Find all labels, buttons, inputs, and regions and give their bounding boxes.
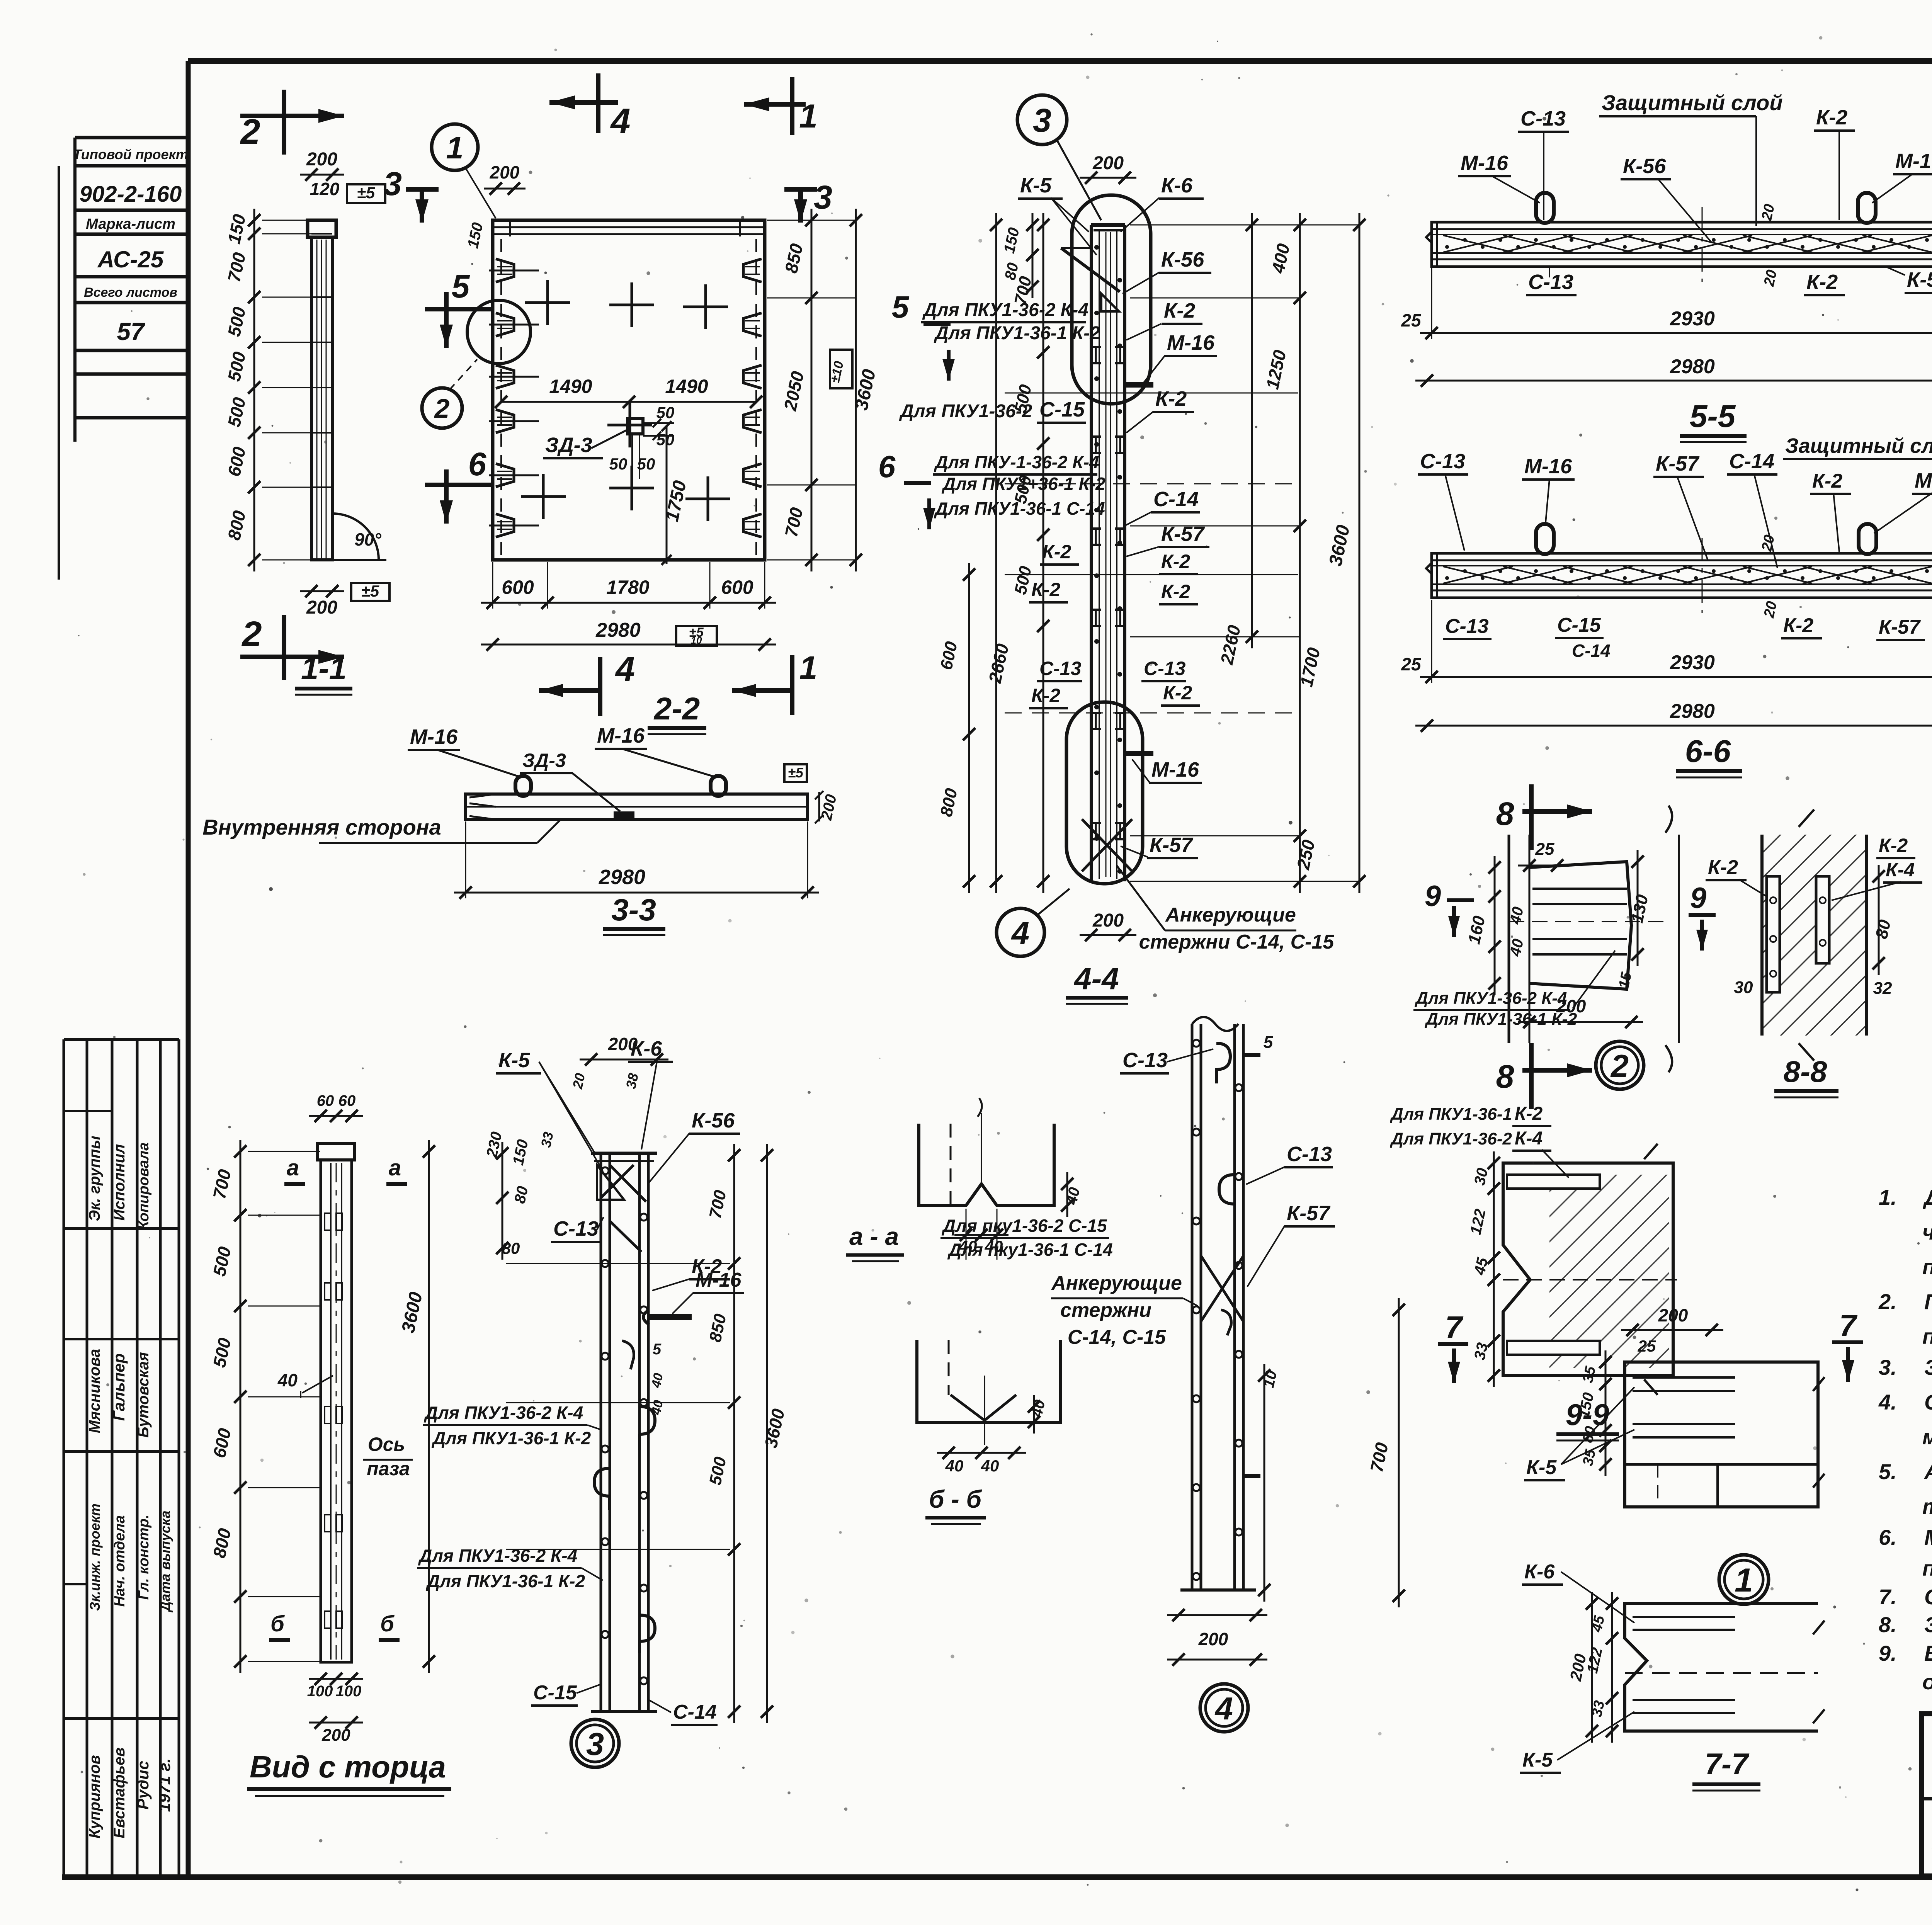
svg-text:М-16: М-16 bbox=[1895, 150, 1932, 173]
svg-text:2980: 2980 bbox=[599, 866, 645, 889]
svg-text:К-2: К-2 bbox=[1042, 541, 1071, 563]
svg-text:ми в сторону нижнего торца: ми в сторону нижнего торца панели. bbox=[1922, 1425, 1932, 1449]
svg-text:К-5: К-5 bbox=[498, 1049, 530, 1072]
svg-text:33: 33 bbox=[1471, 1341, 1491, 1362]
svg-text:Куприянов: Куприянов bbox=[86, 1755, 103, 1838]
svg-text:К-2: К-2 bbox=[1783, 614, 1813, 637]
svg-text:8: 8 bbox=[1496, 1058, 1514, 1095]
svg-text:С-15: С-15 bbox=[1039, 398, 1085, 421]
svg-text:4: 4 bbox=[1011, 915, 1029, 951]
svg-text:200: 200 bbox=[490, 162, 520, 182]
svg-text:К-2: К-2 bbox=[1161, 551, 1190, 572]
section mark 1 (top) bbox=[744, 77, 818, 135]
svg-text:Мясникова: Мясникова bbox=[86, 1349, 103, 1433]
svg-text:Совместно с настоящим листо: Совместно с настоящим листом см. лист АС… bbox=[1924, 1585, 1932, 1609]
svg-text:Для ПКУ1-36-2: Для ПКУ1-36-2 bbox=[1389, 1129, 1512, 1148]
М-16 loop on cage bbox=[649, 1314, 692, 1320]
svg-text:80: 80 bbox=[511, 1185, 531, 1205]
svg-text:600: 600 bbox=[721, 576, 753, 598]
svg-text:Дата выпуска: Дата выпуска bbox=[157, 1510, 173, 1612]
svg-text:К-5: К-5 bbox=[1020, 174, 1052, 197]
view 4-4 : vertical panel section with detail balloons bbox=[878, 95, 1366, 1004]
svg-text:200: 200 bbox=[1092, 910, 1124, 931]
svg-text:8: 8 bbox=[1496, 796, 1514, 832]
keyway plug detail with section marks 8 and 9 bbox=[1413, 784, 1716, 1109]
svg-text:К-2: К-2 bbox=[1031, 579, 1060, 600]
svg-text:120: 120 bbox=[310, 179, 340, 199]
svg-text:подлежащего рассмотрению Гос: подлежащего рассмотрению Госстроем СССР … bbox=[1922, 1255, 1932, 1279]
svg-text:4: 4 bbox=[610, 102, 630, 141]
svg-text:100: 100 bbox=[307, 1683, 333, 1700]
svg-text:К-4: К-4 bbox=[1515, 1128, 1543, 1149]
svg-text:Для пку1-36-2 С-15: Для пку1-36-2 С-15 bbox=[941, 1216, 1107, 1236]
svg-text:обоих сторон.: обоих сторон. bbox=[1922, 1670, 1932, 1694]
svg-text:40: 40 bbox=[277, 1370, 298, 1390]
svg-text:20: 20 bbox=[1759, 533, 1778, 553]
svg-text:стержни С-14, С-15: стержни С-14, С-15 bbox=[1139, 931, 1335, 953]
svg-text:600: 600 bbox=[502, 576, 534, 598]
svg-text:2: 2 bbox=[241, 614, 262, 654]
svg-text:2930: 2930 bbox=[1670, 308, 1715, 330]
svg-text:Для ПКУ1-36-1 К-2: Для ПКУ1-36-1 К-2 bbox=[431, 1428, 591, 1448]
svg-text:Для ПКУ1-36-2 К-4: Для ПКУ1-36-2 К-4 bbox=[922, 300, 1088, 320]
svg-text:10: 10 bbox=[691, 634, 702, 646]
svg-text:1490: 1490 bbox=[549, 376, 592, 397]
svg-text:80: 80 bbox=[502, 1239, 520, 1257]
notes block: Примечания, items 1-9 bbox=[1878, 1134, 1932, 1694]
lifting loop М-16 bbox=[515, 776, 531, 796]
section mark 3 (right) bbox=[784, 187, 817, 192]
svg-text:25: 25 bbox=[1535, 840, 1554, 859]
svg-text:Анкерующие: Анкерующие bbox=[1051, 1272, 1182, 1294]
svg-text:петель приподнимаются и пов: петель приподнимаются и поверхность бето… bbox=[1922, 1324, 1932, 1349]
svg-text:Защитный слой бетона для а: Защитный слой бетона для арматуры — 20 м… bbox=[1924, 1355, 1932, 1379]
svg-text:М-16: М-16 bbox=[597, 724, 645, 747]
svg-text:Копировала: Копировала bbox=[136, 1143, 152, 1230]
svg-text:Для ПКУ1-36-1: Для ПКУ1-36-1 bbox=[1389, 1105, 1512, 1124]
svg-text:6: 6 bbox=[468, 446, 487, 482]
svg-text:8-8: 8-8 bbox=[1784, 1054, 1827, 1088]
svg-text:20: 20 bbox=[1759, 202, 1778, 222]
svg-text:1490: 1490 bbox=[665, 376, 708, 397]
svg-text:Для ПКУ1-36-1 К-2: Для ПКУ1-36-1 К-2 bbox=[425, 1571, 585, 1591]
svg-text:К-6: К-6 bbox=[1161, 174, 1193, 197]
detail balloon 3 callout bbox=[1017, 95, 1067, 145]
svg-text:С-13: С-13 bbox=[1445, 615, 1489, 638]
svg-text:25: 25 bbox=[1401, 310, 1422, 330]
svg-text:3.: 3. bbox=[1879, 1355, 1897, 1379]
detail 4 : reinforcement cage elevation with anchor bars bbox=[1051, 1017, 1335, 1732]
svg-text:3: 3 bbox=[814, 179, 832, 216]
svg-text:5: 5 bbox=[653, 1341, 662, 1358]
section mark 4 (top) bbox=[549, 73, 631, 141]
view 8-8 : hatched wall section with clips bbox=[1706, 809, 1922, 1097]
svg-text:Евстафьев: Евстафьев bbox=[111, 1747, 128, 1838]
svg-text:К-2: К-2 bbox=[1031, 685, 1060, 706]
svg-text:Эк. группы: Эк. группы bbox=[86, 1136, 103, 1221]
svg-text:Рудис: Рудис bbox=[134, 1761, 152, 1809]
svg-text:6: 6 bbox=[878, 449, 896, 484]
svg-text:После окончания бетонировани: После окончания бетонирования изделия ко… bbox=[1924, 1289, 1932, 1314]
svg-text:К-2: К-2 bbox=[1806, 270, 1838, 294]
svg-text:40: 40 bbox=[981, 1457, 999, 1475]
svg-text:К-2: К-2 bbox=[1163, 682, 1192, 704]
svg-text:±5: ±5 bbox=[357, 184, 375, 202]
svg-text:К-56: К-56 bbox=[692, 1109, 735, 1132]
view Вид с торца : end elevation of panel bbox=[209, 1092, 451, 1796]
view б-б : keyway channel lower bbox=[917, 1340, 1060, 1524]
svg-text:ЗД-3: ЗД-3 bbox=[545, 434, 592, 457]
svg-text:200: 200 bbox=[1658, 1305, 1688, 1325]
svg-text:90°: 90° bbox=[354, 529, 381, 549]
svg-text:АС-25: АС-25 bbox=[97, 247, 164, 272]
section mark 1 (bottom) bbox=[790, 655, 794, 715]
svg-text:М-16: М-16 bbox=[410, 725, 458, 748]
svg-text:Марка-лист: Марка-лист bbox=[86, 216, 175, 232]
svg-text:ЗД-3: ЗД-3 bbox=[522, 750, 566, 771]
section mark 3 (left) bbox=[406, 187, 439, 192]
svg-text:Для ПКУ1-36-1 К-2: Для ПКУ1-36-1 К-2 bbox=[1424, 1010, 1577, 1029]
svg-text:Для ПКУ-1-36-2 К-4: Для ПКУ-1-36-2 К-4 bbox=[934, 452, 1099, 472]
svg-text:2980: 2980 bbox=[1670, 700, 1715, 723]
hook К-2 lower bbox=[639, 1615, 655, 1653]
svg-text:5: 5 bbox=[892, 290, 910, 324]
svg-text:С-14, С-15: С-14, С-15 bbox=[1068, 1326, 1166, 1349]
svg-text:Сетки С-14 и С-15 устанавл: Сетки С-14 и С-15 устанавливать анкерующ… bbox=[1924, 1390, 1932, 1414]
svg-text:Закладную деталь марки ЗД-3: Закладную деталь марки ЗД-3 см. на листе… bbox=[1924, 1612, 1932, 1637]
svg-text:С-15: С-15 bbox=[533, 1682, 577, 1704]
section mark 6 (left) bbox=[425, 483, 491, 487]
svg-text:6-6: 6-6 bbox=[1685, 734, 1731, 769]
svg-text:Анкерующие: Анкерующие bbox=[1165, 904, 1296, 926]
svg-text:Арматурные изделия , располаг: Арматурные изделия , располагаемые в одн… bbox=[1923, 1459, 1932, 1484]
svg-text:К-57: К-57 bbox=[1656, 452, 1700, 475]
svg-text:чертежи серии 3.900-2 выпус: чертежи серии 3.900-2 выпуска 2, а также… bbox=[1922, 1220, 1932, 1244]
svg-text:Вид с торца: Вид с торца bbox=[250, 1750, 446, 1784]
svg-text:200: 200 bbox=[306, 149, 337, 170]
svg-text:Для ПКУ1-36-1 К-2: Для ПКУ1-36-1 К-2 bbox=[934, 323, 1100, 344]
svg-text:Для пку1-36-1 С-14: Для пку1-36-1 С-14 bbox=[947, 1240, 1113, 1260]
title block (bottom right) bbox=[1922, 1714, 1932, 1876]
svg-text:38: 38 bbox=[623, 1072, 641, 1090]
svg-text:Бутовская: Бутовская bbox=[135, 1352, 152, 1437]
svg-text:С-14: С-14 bbox=[673, 1701, 717, 1723]
svg-text:С-13: С-13 bbox=[1144, 658, 1186, 679]
svg-text:2: 2 bbox=[1610, 1048, 1629, 1084]
svg-text:50: 50 bbox=[656, 403, 675, 422]
svg-text:К-2: К-2 bbox=[1879, 835, 1908, 856]
svg-text:Монтажные петли прихватывают: Монтажные петли прихватываются к верхней… bbox=[1924, 1525, 1932, 1549]
svg-text:а - а: а - а bbox=[849, 1223, 899, 1250]
svg-text:10: 10 bbox=[1260, 1369, 1280, 1389]
svg-text:3: 3 bbox=[586, 1726, 604, 1762]
svg-text:К-2: К-2 bbox=[1155, 387, 1187, 410]
svg-text:25: 25 bbox=[1638, 1337, 1656, 1355]
right dim ladder of detail 3 bbox=[733, 1144, 735, 1723]
svg-text:Защитный слой: Защитный слой bbox=[1785, 434, 1932, 457]
svg-text:7-7: 7-7 bbox=[1705, 1747, 1750, 1781]
svg-text:9.: 9. bbox=[1879, 1641, 1897, 1665]
svg-text:К-5: К-5 bbox=[1522, 1749, 1553, 1771]
view 9-9 : groove section bbox=[1389, 1104, 1677, 1440]
detail label 3 bbox=[571, 1719, 619, 1767]
svg-text:Зк.инж. проект: Зк.инж. проект bbox=[87, 1503, 103, 1611]
svg-text:панели сваркой или привяз: панели сваркой или привязываются проволо… bbox=[1922, 1556, 1932, 1580]
extension lines across cage bbox=[506, 1263, 730, 1264]
svg-text:С-13: С-13 bbox=[1420, 450, 1465, 473]
svg-text:К-2: К-2 bbox=[1161, 581, 1190, 602]
svg-text:5-5: 5-5 bbox=[1690, 399, 1736, 434]
svg-text:2: 2 bbox=[434, 393, 450, 423]
svg-text:б - б: б - б bbox=[929, 1485, 983, 1513]
svg-text:Для составления листов АС-2: Для составления листов АС-25, АС-26 испо… bbox=[1923, 1185, 1932, 1209]
svg-text:40: 40 bbox=[649, 1372, 666, 1389]
detail label 4 bbox=[1200, 1684, 1248, 1732]
balloon outline (detail 3 region) bbox=[1072, 195, 1151, 404]
extra diagonal braces at cage top bbox=[601, 1165, 634, 1198]
svg-text:С-13: С-13 bbox=[553, 1217, 599, 1240]
embedded part ЗД-3 bbox=[628, 418, 643, 434]
svg-text:40: 40 bbox=[1507, 937, 1527, 958]
svg-text:40: 40 bbox=[945, 1457, 964, 1475]
svg-text:57: 57 bbox=[117, 318, 146, 345]
svg-text:М-16: М-16 bbox=[1167, 331, 1215, 354]
svg-text:С-13: С-13 bbox=[1287, 1143, 1332, 1166]
svg-text:40: 40 bbox=[1063, 1186, 1083, 1207]
svg-text:60: 60 bbox=[338, 1092, 356, 1109]
detail balloon 1 callout bbox=[1719, 1555, 1769, 1604]
svg-text:±5: ±5 bbox=[361, 582, 379, 600]
svg-text:Типовой проект: Типовой проект bbox=[73, 146, 188, 162]
view 7-7 : panel end details bbox=[1366, 1298, 1863, 1791]
lifting loop М-16 bbox=[711, 776, 726, 796]
top-left stamp table (Типовой проект 902-2-160, АС-25, 57) bbox=[59, 138, 188, 580]
svg-text:7: 7 bbox=[1445, 1310, 1464, 1344]
svg-text:3: 3 bbox=[383, 165, 402, 202]
svg-text:С-15: С-15 bbox=[1557, 614, 1601, 636]
svg-text:20: 20 bbox=[569, 1072, 588, 1091]
svg-text:К-6: К-6 bbox=[1524, 1561, 1555, 1583]
view 5-5 : horizontal panel cross-section bbox=[1401, 90, 1932, 442]
svg-text:7.: 7. bbox=[1879, 1585, 1897, 1609]
svg-text:6.: 6. bbox=[1879, 1525, 1897, 1549]
detail balloon 4 callout bbox=[997, 908, 1044, 956]
detail balloon 2 callout bbox=[1596, 1041, 1644, 1089]
svg-text:К-4: К-4 bbox=[1886, 859, 1915, 881]
svg-text:8.: 8. bbox=[1879, 1612, 1897, 1637]
svg-text:2980: 2980 bbox=[1670, 355, 1715, 378]
svg-text:К-56: К-56 bbox=[1161, 248, 1204, 271]
svg-text:Исполнил: Исполнил bbox=[111, 1144, 128, 1221]
svg-text:К-2: К-2 bbox=[1515, 1104, 1543, 1124]
svg-text:4: 4 bbox=[1214, 1690, 1233, 1726]
svg-text:4: 4 bbox=[615, 650, 635, 689]
section mark 4 (bottom) bbox=[598, 657, 602, 716]
svg-text:3-3: 3-3 bbox=[611, 893, 656, 927]
svg-text:В панели ПКУ1-36-2ª детали: В панели ПКУ1-36-2ª детали ЗД-3 закладыв… bbox=[1924, 1641, 1932, 1665]
svg-text:±5: ±5 bbox=[788, 765, 804, 781]
svg-text:б: б bbox=[380, 1611, 395, 1636]
svg-text:Нач. отдела: Нач. отдела bbox=[112, 1515, 128, 1607]
svg-text:К-2: К-2 bbox=[1708, 856, 1738, 879]
svg-text:40: 40 bbox=[649, 1399, 666, 1417]
svg-text:М-16: М-16 bbox=[1524, 455, 1572, 478]
svg-text:М-16: М-16 bbox=[1461, 151, 1509, 175]
svg-text:200: 200 bbox=[1092, 153, 1124, 173]
svg-text:200: 200 bbox=[321, 1726, 350, 1745]
svg-text:С-14: С-14 bbox=[1153, 488, 1199, 511]
svg-text:К-5: К-5 bbox=[1526, 1456, 1557, 1479]
view а-а : keyway channel bbox=[846, 1098, 1113, 1261]
svg-text:К-57: К-57 bbox=[1907, 268, 1932, 291]
svg-text:С-14: С-14 bbox=[1572, 641, 1611, 661]
svg-text:9: 9 bbox=[1690, 882, 1706, 915]
svg-text:С-14: С-14 bbox=[1729, 450, 1774, 473]
svg-text:2980: 2980 bbox=[595, 619, 641, 641]
view 2-2 : panel plan bbox=[383, 124, 880, 734]
svg-text:М-16: М-16 bbox=[1915, 469, 1932, 492]
svg-text:Гальпер: Гальпер bbox=[110, 1354, 128, 1421]
svg-text:Для ПКУ1-36-2 К-4: Для ПКУ1-36-2 К-4 bbox=[423, 1403, 583, 1423]
svg-text:20: 20 bbox=[1761, 600, 1780, 619]
svg-text:200: 200 bbox=[1198, 1629, 1228, 1649]
svg-text:2.: 2. bbox=[1878, 1289, 1897, 1314]
svg-text:1971 г.: 1971 г. bbox=[155, 1758, 173, 1812]
svg-text:ти в сечениях панели , усло: ти в сечениях панели , условно раздвинут… bbox=[1922, 1494, 1932, 1519]
svg-text:Ось: Ось bbox=[368, 1434, 405, 1455]
svg-text:7: 7 bbox=[1839, 1308, 1858, 1343]
svg-text:1: 1 bbox=[1735, 1562, 1753, 1599]
svg-text:Защитный слой: Защитный слой bbox=[1602, 90, 1783, 115]
view 6-6 : horizontal panel cross-section (lower) bbox=[1401, 434, 1932, 777]
svg-text:К-2: К-2 bbox=[1812, 470, 1842, 492]
svg-text:3: 3 bbox=[1033, 102, 1051, 139]
view 3-3 : horizontal section with lifting loops bbox=[202, 724, 840, 935]
svg-text:1: 1 bbox=[799, 98, 818, 135]
svg-text:5.: 5. bbox=[1879, 1459, 1897, 1484]
svg-text:стержни: стержни bbox=[1060, 1299, 1151, 1321]
svg-text:25: 25 bbox=[1401, 654, 1422, 674]
svg-text:200: 200 bbox=[608, 1034, 638, 1054]
svg-text:1: 1 bbox=[446, 131, 463, 165]
svg-text:К-56: К-56 bbox=[1623, 155, 1666, 178]
svg-text:2: 2 bbox=[240, 112, 260, 151]
svg-text:С-13: С-13 bbox=[1122, 1049, 1168, 1072]
svg-text:5: 5 bbox=[1264, 1033, 1273, 1052]
svg-text:Гл. констр.: Гл. констр. bbox=[136, 1515, 152, 1600]
svg-text:С-13: С-13 bbox=[1528, 270, 1573, 294]
svg-text:М-16: М-16 bbox=[1151, 758, 1199, 781]
svg-text:1-1: 1-1 bbox=[301, 651, 347, 686]
svg-text:902-2-160: 902-2-160 bbox=[80, 182, 182, 207]
svg-text:2930: 2930 bbox=[1670, 651, 1715, 674]
section mark 5 (left) bbox=[425, 307, 491, 311]
svg-text:К-2: К-2 bbox=[1816, 106, 1847, 129]
svg-text:20: 20 bbox=[1761, 268, 1780, 288]
detail 3 : reinforcement cage elevation bbox=[417, 1034, 789, 1767]
svg-text:9: 9 bbox=[1425, 880, 1441, 913]
svg-text:4.: 4. bbox=[1878, 1390, 1897, 1414]
bottom-left stamp column with rotated signature rows bbox=[64, 1039, 179, 1876]
svg-text:К-57: К-57 bbox=[1287, 1202, 1331, 1225]
svg-text:40: 40 bbox=[1507, 905, 1527, 926]
svg-text:1.: 1. bbox=[1879, 1185, 1897, 1209]
svg-text:60: 60 bbox=[317, 1092, 334, 1109]
svg-text:200: 200 bbox=[306, 597, 337, 618]
svg-text:К-57: К-57 bbox=[1879, 616, 1921, 638]
svg-text:б: б bbox=[270, 1611, 285, 1636]
svg-text:33: 33 bbox=[538, 1131, 556, 1149]
svg-text:а: а bbox=[287, 1155, 299, 1180]
balloon outline (detail 4 region) bbox=[1066, 702, 1143, 884]
svg-text:4-4: 4-4 bbox=[1073, 961, 1119, 996]
svg-text:100: 100 bbox=[336, 1683, 362, 1700]
svg-text:2-2: 2-2 bbox=[653, 691, 700, 726]
svg-text:1: 1 bbox=[799, 650, 818, 686]
svg-text:К-2: К-2 bbox=[1164, 299, 1195, 322]
svg-text:К-57: К-57 bbox=[1150, 833, 1194, 857]
svg-text:Всего листов: Всего листов bbox=[84, 285, 177, 300]
svg-text:50: 50 bbox=[609, 455, 628, 473]
svg-text:Внутренняя сторона: Внутренняя сторона bbox=[202, 815, 441, 839]
svg-text:32: 32 bbox=[1873, 979, 1892, 998]
svg-text:Для ПКУ1-36-2 К-4: Для ПКУ1-36-2 К-4 bbox=[1414, 989, 1567, 1008]
svg-text:Для ПКУ1-36-2 К-4: Для ПКУ1-36-2 К-4 bbox=[418, 1546, 577, 1566]
svg-text:С-13: С-13 bbox=[1039, 658, 1082, 679]
svg-text:а: а bbox=[389, 1155, 401, 1180]
section mark 2 (top left) bbox=[240, 90, 344, 155]
svg-text:30: 30 bbox=[1734, 978, 1753, 997]
svg-text:1780: 1780 bbox=[606, 576, 649, 598]
svg-text:паза: паза bbox=[367, 1458, 410, 1479]
view 1-1 : narrow end section with dimension column bbox=[224, 149, 389, 695]
svg-text:5: 5 bbox=[452, 268, 470, 304]
